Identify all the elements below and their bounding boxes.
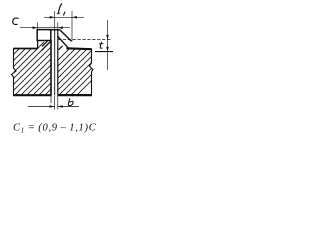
top plateau line over slot <box>51 29 60 31</box>
dashed reference level for t <box>58 39 111 41</box>
label b <box>68 98 73 105</box>
dimension line c <box>20 27 70 29</box>
label c <box>13 18 19 25</box>
label t <box>100 42 102 48</box>
extension line at x=37.5 <box>37 23 39 30</box>
dimension line t vertical <box>107 20 109 70</box>
extension line at x=72 <box>71 11 73 42</box>
arrowhead b right <box>58 105 63 108</box>
arrowhead t lower <box>106 47 109 52</box>
right plate top surface <box>66 47 91 50</box>
hatching left plate <box>0 42 98 96</box>
hatching right plate <box>22 36 136 96</box>
label l1 <box>58 3 62 13</box>
left plate step edge <box>37 40 39 49</box>
left plate left edge with break jog <box>12 48 17 96</box>
extension line at x=57.8 above <box>57 23 59 30</box>
arrowhead b left <box>50 105 55 108</box>
arrowhead l1 left <box>50 16 55 19</box>
dimension line b left <box>28 106 55 108</box>
dimension line b right <box>58 106 79 108</box>
dense corner hatching right below strip <box>59 46 63 50</box>
lower extension line for t <box>95 51 113 53</box>
arrowhead c left <box>33 26 38 29</box>
left plate bottom edge <box>13 94 52 96</box>
arrowhead c right <box>58 26 63 29</box>
dimension line l1 <box>44 16 84 18</box>
slot right wall / right plate joint edge <box>57 30 59 96</box>
svg-text:C1 = (0,9 – 1,1)C: C1 = (0,9 – 1,1)C <box>13 123 97 135</box>
extension lines for b <box>54 96 56 110</box>
right plate bottom edge <box>58 94 93 96</box>
joint wall overshoot below bottom <box>50 96 52 104</box>
caulk strip upper diagonal <box>60 30 72 42</box>
caulk strip lower diagonal <box>57 36 68 48</box>
insert block (white, unsectioned) <box>37 30 51 41</box>
extension line at x=54.7 <box>54 11 56 30</box>
arrowhead t upper <box>106 35 109 40</box>
slot middle line <box>54 30 56 96</box>
right plate right edge with break jog <box>89 49 93 96</box>
left plate top surface <box>14 48 38 50</box>
arrowhead l1 right <box>72 16 77 19</box>
dense corner hatching near slot left <box>42 41 51 51</box>
left plate joint wall (thick) <box>50 40 52 96</box>
